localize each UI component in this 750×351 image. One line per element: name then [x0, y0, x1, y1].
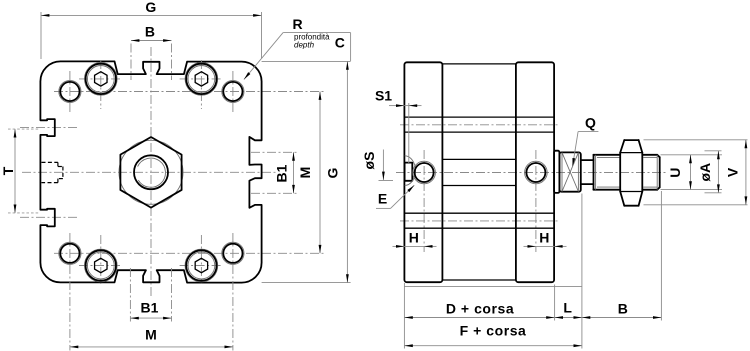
svg-text:D + corsa: D + corsa: [446, 300, 514, 316]
dimension V: [644, 140, 748, 205]
svg-text:øA: øA: [697, 163, 713, 182]
port hole left: [413, 161, 436, 184]
rod bearing collar: [554, 151, 559, 193]
svg-text:T: T: [0, 166, 16, 175]
svg-text:G: G: [145, 0, 156, 15]
svg-text:L: L: [563, 299, 572, 315]
dimension B1 right: [251, 152, 299, 193]
dimension H right: [524, 230, 567, 247]
spot face arc around left port: [405, 156, 416, 186]
center line bottom holes row: [54, 252, 326, 254]
svg-text:B1: B1: [141, 300, 159, 316]
dimension M right: [297, 92, 320, 254]
rod thread end: [642, 155, 659, 190]
hole bottom-right: [222, 242, 244, 264]
svg-text:B: B: [145, 24, 155, 40]
dimension øS leader: [361, 150, 393, 181]
hole center marks vertical: [70, 71, 233, 351]
hex nut: [620, 140, 642, 206]
dimension H left: [393, 230, 437, 247]
upper slot rails: [404, 116, 554, 118]
center line bottom-left T-slot: [20, 216, 77, 218]
screw center marks: [79, 60, 223, 284]
threaded rod section: [594, 155, 621, 190]
port hole right: [525, 161, 548, 184]
dimension T left: [0, 129, 40, 213]
dimension L: [555, 299, 582, 317]
dimension U: [661, 155, 723, 190]
center line upper slot, side view: [400, 124, 558, 126]
dimension G right: [262, 61, 351, 282]
front end cap, side view: [516, 62, 554, 282]
dimension G top: [41, 0, 262, 59]
cylinder body outline, front view: [40, 61, 261, 282]
svg-text:V: V: [725, 167, 741, 177]
screw bottom-right (socket head): [185, 249, 218, 282]
svg-text:Q: Q: [585, 115, 596, 131]
svg-text:øS: øS: [361, 152, 377, 170]
dimension M bottom: [70, 327, 233, 347]
port left face rectangle (E port): [405, 163, 413, 181]
hidden T-slot, middle of left face: [42, 162, 63, 182]
dimension B1 bottom: [130, 268, 171, 322]
center line horizontal, side view: [396, 172, 668, 174]
screw bottom-left (socket head): [85, 249, 118, 282]
center line top holes row: [54, 91, 326, 93]
hole top-right: [222, 80, 244, 102]
hole bottom-left: [59, 242, 81, 264]
dimension D + corsa: [404, 300, 554, 317]
svg-text:F + corsa: F + corsa: [460, 322, 527, 338]
cylinder bore lines: [442, 158, 516, 160]
dimension B top: [131, 24, 172, 81]
hole top-left: [59, 80, 81, 102]
svg-text:depth: depth: [294, 41, 315, 50]
svg-text:C: C: [335, 35, 345, 51]
svg-text:B: B: [618, 300, 628, 316]
center line horizontal, front view: [22, 171, 278, 173]
extension lines bottom, side view: [404, 191, 661, 349]
rear end cap, side view: [404, 62, 442, 282]
svg-text:E: E: [378, 191, 387, 207]
cylinder tube top and bottom, side view: [442, 63, 516, 65]
svg-text:H: H: [409, 230, 419, 246]
svg-text:B1: B1: [273, 164, 289, 182]
central hex boss: [119, 137, 183, 208]
screw top-left (socket head): [85, 63, 118, 96]
center line right port vertical: [535, 150, 537, 252]
leader R with depth C note: [244, 16, 351, 80]
svg-text:M: M: [297, 167, 313, 179]
leader E: [376, 185, 414, 208]
center line lower slot, side view: [400, 220, 558, 222]
lower slot rails: [404, 212, 554, 214]
dimension F + corsa: [404, 322, 582, 345]
svg-text:H: H: [539, 230, 549, 246]
svg-text:U: U: [667, 168, 683, 178]
dimension øA: [697, 151, 722, 193]
svg-text:R: R: [292, 16, 302, 32]
leader Q: [573, 115, 599, 167]
rod wrench flats block with X: [559, 152, 580, 191]
svg-text:M: M: [145, 327, 157, 343]
center line left port vertical: [423, 150, 425, 252]
dimension B rod: [582, 300, 662, 317]
svg-text:G: G: [325, 167, 341, 178]
dimension S1: [375, 88, 422, 164]
center line top-left T-slot: [20, 127, 77, 129]
rod neck: [581, 155, 594, 190]
svg-text:S1: S1: [375, 88, 392, 104]
screw top-right (socket head): [185, 63, 218, 96]
center line vertical, front view: [150, 47, 152, 298]
